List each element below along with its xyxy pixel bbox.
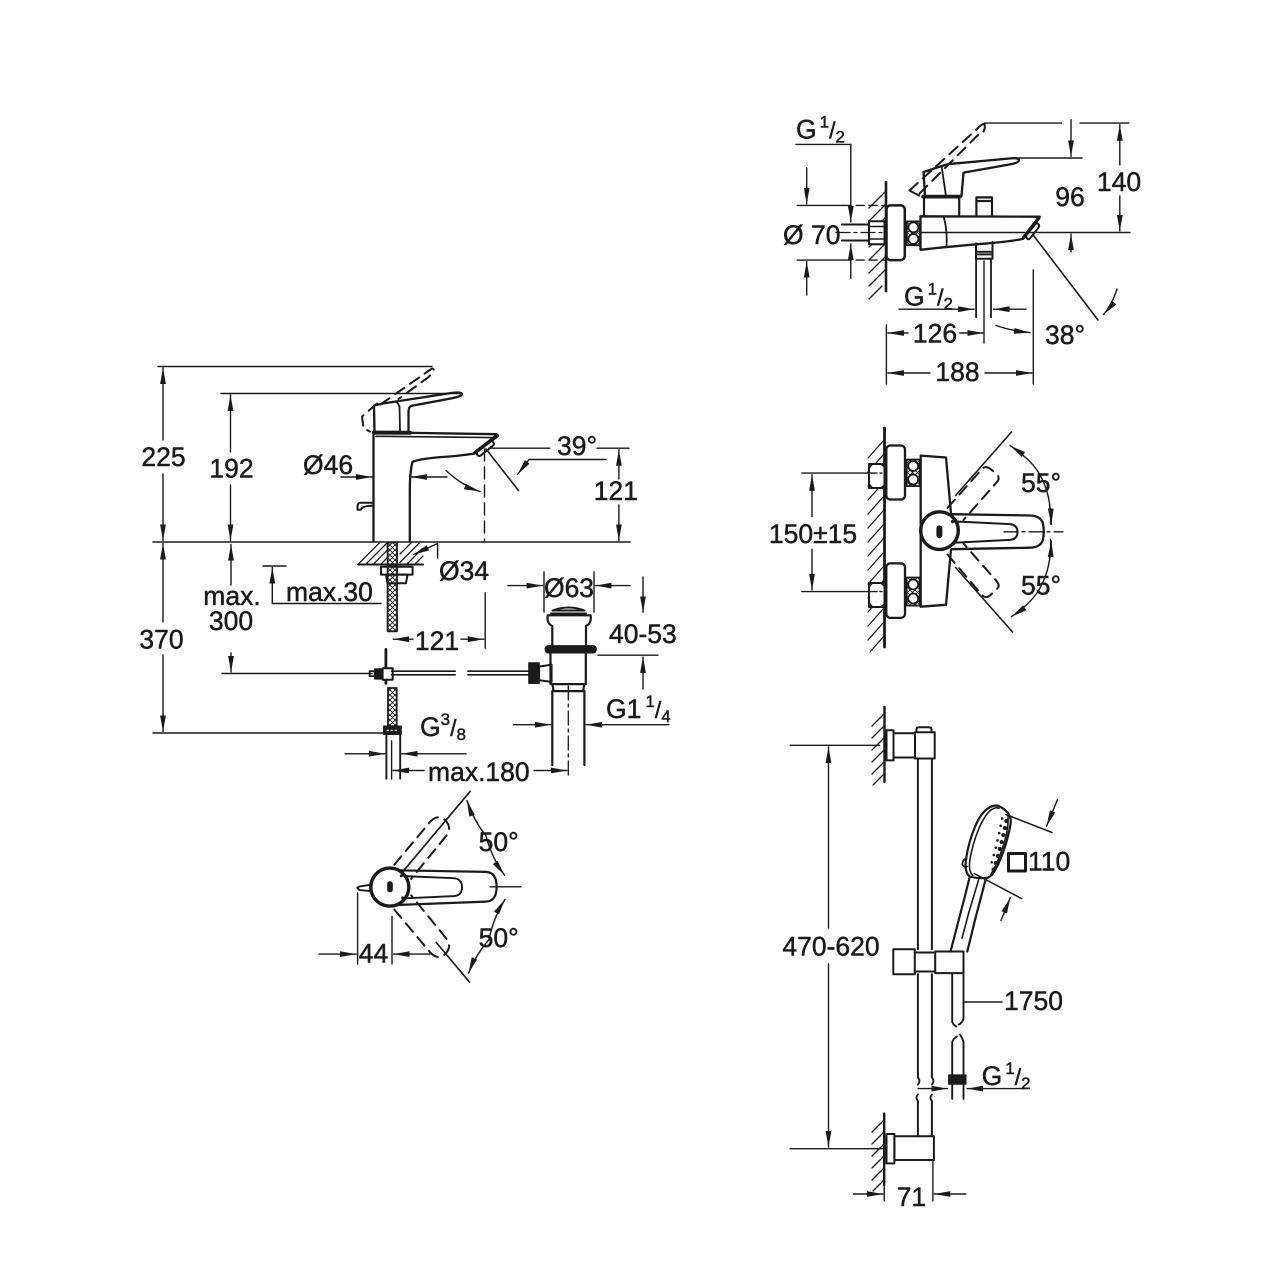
label 140 (1097, 167, 1141, 197)
label D70 (783, 220, 840, 250)
label max.300 (203, 581, 260, 636)
label 38deg (1045, 320, 1085, 350)
lower dashed handle position (948, 544, 999, 598)
body/spout seam (944, 218, 947, 247)
38deg stream diagonal (1034, 236, 1099, 321)
upper 50deg arc (467, 801, 505, 876)
rail upper section (918, 759, 932, 1078)
svg-text:300: 300 (209, 606, 253, 636)
svg-text:225: 225 (141, 442, 185, 472)
dimension 225 (162, 368, 164, 541)
upper inlet square fitting (869, 464, 885, 488)
spout tip aerator (bath) (1026, 223, 1039, 239)
svg-text:Ø46: Ø46 (303, 450, 353, 480)
G1/2 hose arrows (899, 308, 1026, 310)
horizontal drain rod (with break) (392, 671, 529, 675)
svg-text:50°: 50° (479, 827, 519, 857)
dimension 71 (854, 1161, 966, 1201)
shower hose outlet (976, 242, 993, 259)
upper 55deg construction line (956, 432, 1012, 496)
label 96 (1055, 182, 1084, 212)
upper union nut (side view) (907, 460, 920, 487)
svg-text:192: 192 (209, 454, 253, 484)
label 55deg lower (1021, 571, 1061, 601)
dimension D46 arrows (341, 476, 447, 478)
upper dashed handle position (948, 467, 999, 520)
hose centre extension (983, 261, 985, 343)
faucet pillar and spout (374, 432, 499, 541)
handshower head (966, 806, 1011, 879)
svg-text:39°: 39° (557, 431, 597, 461)
lower escutcheon (side view) (886, 563, 905, 618)
handshower handle (951, 877, 987, 952)
valve tailpipe (552, 691, 584, 765)
label 370 (139, 625, 183, 655)
handle-top reference line (96) (1015, 157, 1082, 159)
square-110 lower extension line (974, 874, 1021, 899)
handle front seam (942, 166, 946, 195)
reference line at outlet level (broken by 39deg label) (489, 447, 629, 449)
pull rod end cap (370, 671, 375, 676)
spout tip thick edge (bath) (1024, 218, 1039, 237)
label 39deg (557, 431, 597, 461)
top reference line (140) broken for 96 arrow (985, 122, 1129, 124)
lower 50deg construction line (436, 942, 470, 982)
extension line top (dashed-handle tip level) (158, 366, 432, 368)
rail lower section (918, 1101, 932, 1136)
svg-text:55°: 55° (1021, 571, 1061, 601)
lower 55deg construction line (956, 568, 1013, 633)
valve flange (547, 615, 590, 646)
glide holder knob (893, 949, 915, 974)
lower inlet centreline (802, 591, 885, 593)
wall hatching (869, 192, 885, 299)
stem tab (357, 885, 372, 892)
label 470-620 (782, 932, 879, 962)
connection tube G3/8 (386, 734, 400, 778)
label 50deg upper (479, 827, 519, 857)
dimension 121 horizontal (axis to outlet) (393, 593, 485, 649)
pivot dots (400, 874, 404, 899)
label D34 with leader (439, 556, 489, 586)
valve o-ring (dark band) (545, 646, 596, 653)
label 50deg lower (479, 923, 519, 953)
rail break marks (916, 1077, 933, 1101)
square-110 upper extension line (1006, 815, 1052, 833)
dashed raised handle (mixer) (910, 124, 985, 197)
outlet level reference line (921, 232, 1131, 234)
wall hatching (side view) (868, 440, 884, 652)
mixer body (side profile) (921, 456, 951, 607)
dimension max.180 (393, 770, 567, 772)
label 1750 leader (964, 1001, 1003, 1003)
label 150+-15 (769, 519, 857, 549)
upper escutcheon (side view) (886, 446, 905, 500)
dimension G1 1/4 arrows (514, 724, 669, 726)
reference line 40-53 bottom (598, 654, 658, 656)
extension line tube centre (391, 741, 393, 779)
spout tip thick edge (475, 435, 497, 452)
valve centreline (567, 686, 569, 779)
svg-text:150±15: 150±15 (769, 519, 857, 549)
handle centreline (side) (1004, 531, 1063, 533)
dome dark pill (936, 525, 942, 538)
valve bottom nut (552, 684, 584, 691)
svg-text:40-53: 40-53 (609, 619, 677, 649)
centreline dash-dot (836, 232, 886, 234)
svg-text:370: 370 (139, 625, 183, 655)
label max.180 (428, 757, 530, 787)
valve side knob (knurled) (529, 663, 539, 683)
extension line solid-handle tip level (221, 393, 461, 395)
svg-text:38°: 38° (1045, 320, 1085, 350)
label square 110 (1009, 854, 1026, 872)
dimension max.30 (263, 566, 381, 604)
spray button nub (962, 859, 967, 867)
label G1/2 shower (982, 1059, 1031, 1093)
lower dashed handle position (plan) (394, 895, 449, 957)
aerator (basin) (477, 441, 494, 456)
svg-text:126: 126 (913, 319, 957, 349)
spout tip extension line (1032, 270, 1034, 384)
label 55deg upper (1021, 468, 1061, 498)
dimension D70 (797, 168, 886, 295)
upper dashed handle position (plan) (394, 817, 449, 879)
square-110 lower arrow (1001, 898, 1010, 921)
pull rod vertical (384, 649, 387, 683)
lower union nut (side view) (907, 578, 920, 606)
spout inner top line (376, 436, 492, 437)
top wall hatching (872, 714, 884, 785)
square-110 upper arrow (1047, 800, 1058, 827)
countertop reference line (153, 541, 630, 543)
svg-text:Ø34: Ø34 (439, 556, 489, 586)
top reference line (790, 744, 879, 746)
svg-text:470-620: 470-620 (782, 932, 879, 962)
glide holder middle (915, 953, 935, 972)
dimension 192 (230, 395, 232, 541)
lower 55deg arc (1012, 540, 1051, 617)
mounting washer (381, 567, 413, 575)
label 1750 (1004, 986, 1063, 1016)
svg-text:G11/4: G11/4 (606, 692, 671, 726)
dimension 370 (162, 544, 164, 732)
label 40-53 (609, 619, 677, 649)
G1/2 leader with thread arrows (796, 144, 851, 278)
svg-text:max.180: max.180 (428, 757, 530, 787)
svg-text:50°: 50° (479, 923, 519, 953)
wall face extension line (885, 325, 887, 384)
handshower handle inner line (962, 877, 980, 938)
cartridge block (924, 197, 959, 215)
39deg leader with arrow (518, 460, 607, 475)
svg-text:71: 71 (897, 1182, 926, 1212)
top rail clamp (915, 732, 935, 758)
label 188 (935, 357, 979, 387)
top bracket escutcheon (887, 730, 894, 760)
extension line hose end (370 bottom) (153, 732, 383, 734)
pivot pill (387, 881, 393, 892)
supply pipe stub (842, 225, 869, 241)
label D63 (544, 573, 594, 603)
handle front blob seam (397, 402, 401, 432)
label G1 1/4 (606, 692, 671, 726)
bottom wall hatching (872, 1120, 884, 1191)
svg-text:44: 44 (359, 939, 388, 969)
G1/2 shower arrows (918, 1088, 1023, 1090)
label G1/2 top (796, 113, 845, 147)
wall face line (side view) (883, 428, 886, 647)
dimension 44 (319, 893, 430, 964)
label 121 vertical (594, 476, 638, 506)
svg-text:140: 140 (1097, 167, 1141, 197)
label 121 horizontal (415, 626, 459, 656)
top bracket arm (894, 733, 916, 757)
solid handle lever (924, 158, 1019, 196)
glide holder body (935, 952, 963, 974)
hose lines below outlet (976, 259, 991, 318)
valve pop-up cap (551, 608, 586, 614)
svg-text:121: 121 (594, 476, 638, 506)
hose nut (knurled) (949, 1075, 966, 1084)
39deg arc arrow (446, 471, 480, 492)
dimension max.300 (222, 545, 372, 674)
dome dots (951, 520, 955, 545)
upper arc lower arrowhead (1050, 505, 1052, 524)
top wall segment (883, 707, 885, 782)
escutcheon (side) (887, 205, 905, 260)
S-union nut with balls (907, 221, 920, 245)
upper inlet centreline (802, 472, 885, 474)
threaded shank with flexible hose (388, 543, 397, 632)
head face edge line (991, 814, 1008, 875)
label 126 (913, 319, 957, 349)
shower hose (952, 974, 963, 1075)
plan centreline (490, 886, 521, 888)
dimension 150+-15 (811, 475, 813, 590)
handle inner outline (plan) (402, 876, 462, 898)
dimension 126 (888, 332, 983, 334)
head spray face dots (990, 817, 1008, 871)
label D46 (303, 450, 353, 480)
svg-text:Ø 70: Ø 70 (783, 220, 840, 250)
38deg arc arrows (996, 289, 1117, 333)
label max.30 (286, 577, 373, 607)
valve knob stem (539, 665, 552, 682)
mounting nut (386, 575, 408, 584)
label 192 (209, 454, 253, 484)
dimension 40-53 (642, 577, 644, 689)
drain pull knob (behind pillar) (358, 503, 374, 510)
lower arc upper arrowhead (1050, 541, 1052, 559)
svg-text:110: 110 (1028, 847, 1070, 877)
flexible hose lower section (388, 688, 397, 726)
dimension D63 (508, 572, 630, 612)
countertop section bottom line (358, 564, 423, 566)
dimension 188 (888, 372, 1032, 374)
clamp cap (917, 727, 932, 732)
valve body (551, 653, 586, 684)
39deg dashed vertical through outlet (484, 449, 486, 541)
39deg stream diagonal (486, 449, 519, 491)
pull rod clevis (375, 669, 383, 679)
dimension 470-620 (828, 747, 830, 1147)
tube diameter arrows (345, 753, 466, 755)
svg-text:1750: 1750 (1004, 986, 1063, 1016)
bottom wall segment (883, 1114, 885, 1185)
dimension 140 (1119, 125, 1121, 231)
svg-text:121: 121 (415, 626, 459, 656)
upper 50deg construction line (402, 791, 471, 873)
dimension 121 vertical (618, 450, 620, 541)
svg-text:Ø63: Ø63 (544, 573, 594, 603)
label 225 (141, 442, 185, 472)
lower inlet square fitting (869, 583, 885, 607)
dimension 96 (1070, 120, 1072, 252)
hose nut (knurled) (384, 726, 401, 734)
body top dark edge (374, 431, 410, 435)
label G3/8 (420, 710, 466, 744)
handle lever (side) (952, 514, 1044, 549)
bottom reference line (790, 1148, 886, 1150)
label 71 (897, 1182, 926, 1212)
svg-text:96: 96 (1055, 182, 1084, 212)
hose end stub (952, 1084, 963, 1099)
bottom bracket arm (894, 1136, 934, 1160)
label 44 (359, 939, 388, 969)
cartridge top dark edge (923, 195, 960, 199)
lower 50deg arc (469, 900, 506, 974)
handle pivot circle (371, 868, 409, 906)
diverter knob (976, 197, 992, 215)
label G1/2 lower (904, 280, 953, 314)
bottom bracket escutcheon (887, 1134, 895, 1163)
svg-text:max.30: max.30 (286, 577, 373, 607)
countertop hatching (359, 543, 424, 564)
dashed raised handle (362, 369, 434, 432)
supply nut (869, 221, 885, 244)
handle lever inner outline (954, 521, 1018, 542)
wall face line (885, 182, 888, 291)
mixer body (921, 216, 1040, 250)
svg-text:188: 188 (935, 357, 979, 387)
solid handle lever (374, 393, 462, 432)
svg-text:55°: 55° (1021, 468, 1061, 498)
handle dome (side) (921, 512, 959, 550)
upper 55deg arc (1010, 446, 1050, 524)
handle body (plan) (397, 870, 497, 905)
head rim inner line (969, 808, 999, 876)
